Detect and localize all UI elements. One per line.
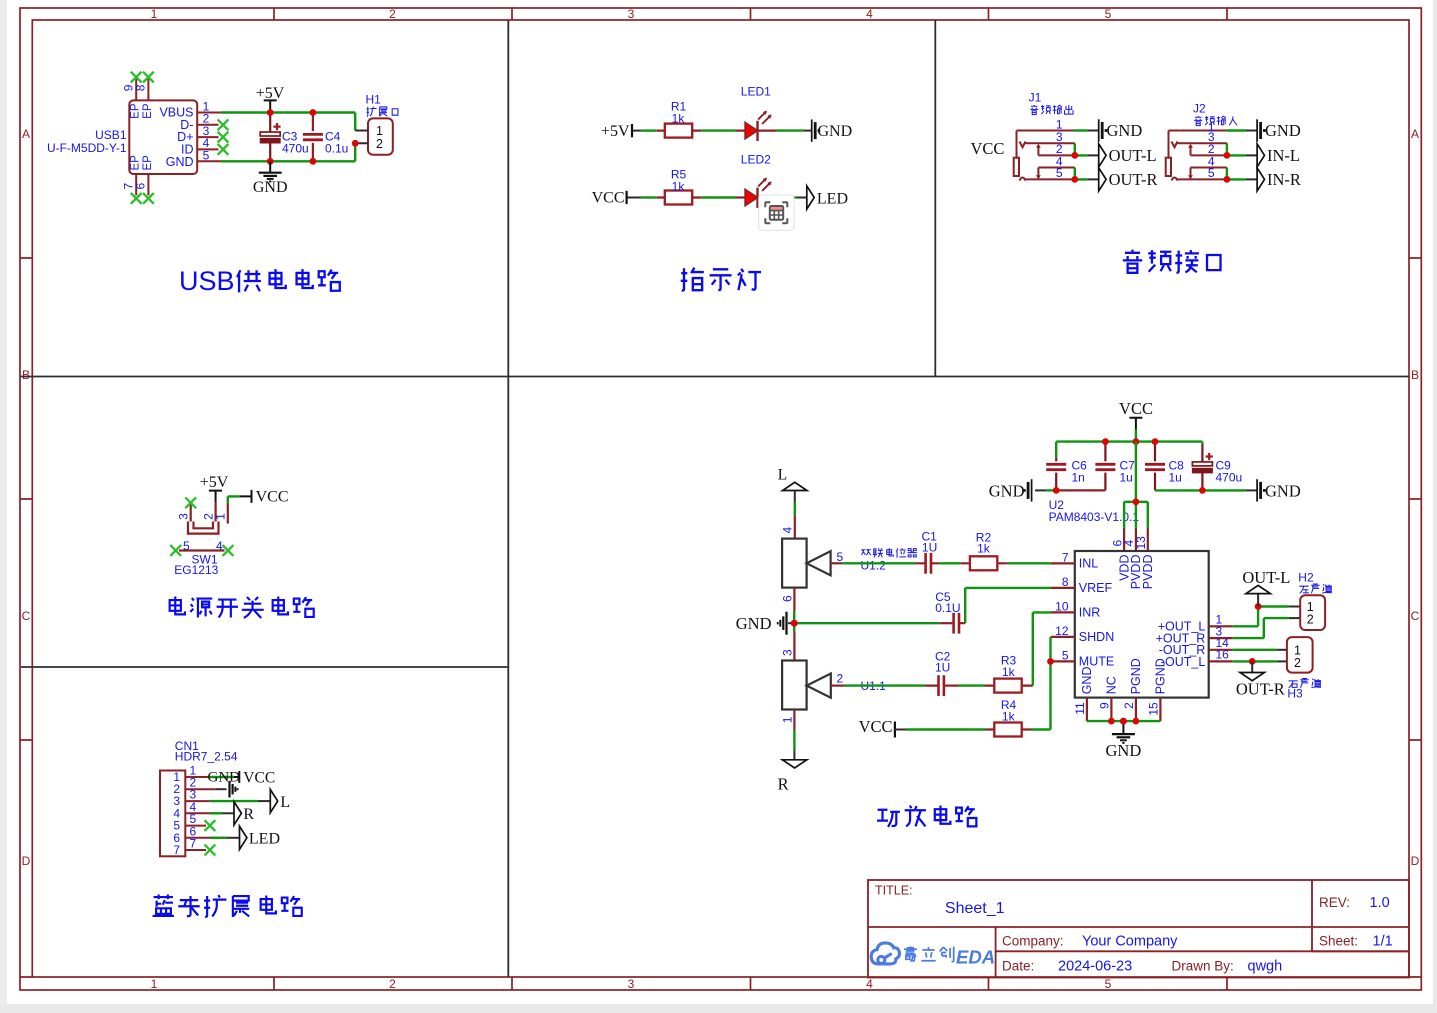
svg-text:GND: GND bbox=[208, 770, 241, 786]
svg-text:1k: 1k bbox=[672, 112, 686, 126]
svg-text:D: D bbox=[1411, 854, 1420, 868]
svg-text:2: 2 bbox=[1307, 613, 1314, 627]
wire wiper to C2 bbox=[844, 684, 925, 686]
svg-text:VCC: VCC bbox=[1119, 399, 1153, 418]
svg-text:OUT-L: OUT-L bbox=[1109, 146, 1157, 165]
wire pin2 to ground bbox=[216, 788, 227, 790]
svg-text:SHDN: SHDN bbox=[1079, 630, 1114, 644]
connector CN1 HDR7_2.54 bbox=[160, 771, 227, 857]
potentiometer U1.2 bbox=[782, 539, 807, 588]
wire VCC bus bbox=[1056, 430, 1202, 458]
junction dots bbox=[267, 109, 274, 116]
svg-text:J2: J2 bbox=[1193, 102, 1206, 116]
svg-text:H1: H1 bbox=[366, 93, 382, 107]
capacitor C4 0.1u bbox=[312, 113, 314, 162]
svg-text:5: 5 bbox=[1062, 648, 1069, 662]
svg-text:+5V: +5V bbox=[256, 85, 285, 102]
svg-text:7: 7 bbox=[190, 837, 197, 851]
svg-text:1u: 1u bbox=[1169, 471, 1182, 485]
svg-text:A: A bbox=[1411, 127, 1419, 141]
wire pin1 to VCC bbox=[210, 776, 234, 778]
svg-text:GND: GND bbox=[818, 123, 853, 140]
svg-text:HDR7_2.54: HDR7_2.54 bbox=[175, 750, 238, 764]
svg-text:GND: GND bbox=[253, 179, 288, 196]
svg-text:1.0: 1.0 bbox=[1370, 895, 1390, 911]
junction dot PGND node bbox=[1120, 718, 1127, 725]
wire C2 to R3 bbox=[958, 684, 985, 686]
svg-text:VCC: VCC bbox=[243, 769, 275, 786]
ground rail left: GND flag bbox=[1023, 479, 1032, 501]
svg-text:R: R bbox=[778, 775, 789, 794]
net flag IN-R bbox=[1257, 168, 1264, 191]
capacitor C7 1u bbox=[1104, 442, 1106, 491]
section title 电源开关电路 bbox=[170, 597, 314, 618]
canvas edge strips bbox=[0, 0, 7, 1013]
svg-text:1: 1 bbox=[151, 977, 158, 991]
svg-text:2: 2 bbox=[376, 137, 383, 151]
svg-text:5: 5 bbox=[1105, 7, 1112, 21]
svg-text:1: 1 bbox=[151, 7, 158, 21]
svg-text:EG1213: EG1213 bbox=[174, 563, 218, 577]
svg-text:L: L bbox=[280, 794, 290, 811]
svg-text:LED2: LED2 bbox=[741, 153, 771, 167]
svg-text:Sheet_1: Sheet_1 bbox=[945, 900, 1005, 917]
junction dot GND node bbox=[791, 620, 798, 627]
wire VREF to C5 bbox=[965, 588, 1050, 623]
wire to LED netflag bbox=[794, 196, 797, 198]
svg-text:GND: GND bbox=[1106, 741, 1142, 760]
chip pin names bbox=[1079, 557, 1114, 669]
svg-text:12: 12 bbox=[1055, 624, 1069, 638]
logo JLCEDA bbox=[871, 943, 899, 964]
capacitor C6 1n bbox=[1055, 458, 1057, 490]
LED2 row wires bbox=[627, 197, 641, 199]
svg-text:OUT-L: OUT-L bbox=[1242, 568, 1290, 587]
svg-text:6: 6 bbox=[134, 183, 148, 190]
svg-text:1: 1 bbox=[214, 513, 228, 520]
svg-text:2: 2 bbox=[389, 7, 396, 21]
no-connect X pin5 bbox=[205, 820, 216, 831]
svg-text:Sheet:: Sheet: bbox=[1319, 934, 1358, 949]
svg-text:TITLE:: TITLE: bbox=[875, 884, 913, 898]
svg-text:LED: LED bbox=[249, 830, 280, 847]
svg-text:VCC: VCC bbox=[859, 717, 893, 736]
svg-text:PVDD: PVDD bbox=[1141, 555, 1155, 590]
wire SHDN/MUTE to R4 bbox=[1049, 637, 1051, 730]
pin number labels bbox=[177, 513, 228, 553]
resistor R3 1k bbox=[985, 684, 1033, 686]
output wires -OUT_L to H3 pin2 bbox=[1232, 660, 1277, 662]
svg-text:GND: GND bbox=[1265, 121, 1301, 140]
svg-text:NC: NC bbox=[1105, 676, 1119, 694]
svg-text:3: 3 bbox=[780, 649, 794, 656]
svg-text:J1: J1 bbox=[1029, 91, 1042, 105]
svg-text:1k: 1k bbox=[672, 180, 686, 194]
connector USB1 U-F-M5DD-Y-1 bbox=[129, 77, 221, 195]
connector H1 expansion port bbox=[368, 118, 393, 154]
svg-text:470u: 470u bbox=[282, 142, 309, 156]
pot U1.1 pin1 to R flag bbox=[793, 710, 795, 731]
UI overlay widget bbox=[759, 195, 794, 230]
svg-text:U1.2: U1.2 bbox=[861, 559, 887, 573]
wire wiper to C1 bbox=[842, 562, 915, 564]
net flag LED bbox=[807, 186, 814, 209]
svg-text:EP: EP bbox=[130, 103, 142, 119]
ground rail right bbox=[1155, 489, 1246, 491]
svg-text:GND: GND bbox=[1265, 481, 1301, 500]
wire pin4 to R bbox=[210, 812, 223, 814]
resistor R1 1k bbox=[665, 124, 692, 138]
svg-text:GND: GND bbox=[989, 481, 1025, 500]
svg-text:EP: EP bbox=[130, 155, 142, 171]
LED1 row wires bbox=[633, 130, 642, 132]
output wires OUT_R path to H2 pin2 bbox=[1232, 618, 1288, 638]
svg-text:4: 4 bbox=[780, 527, 794, 534]
ground flag GND (J1) bbox=[1099, 119, 1108, 141]
wire R2 to INL bbox=[1008, 562, 1051, 564]
svg-text:1k: 1k bbox=[1002, 665, 1016, 679]
svg-text:H2: H2 bbox=[1298, 571, 1314, 585]
net flag OUT-L bbox=[1099, 144, 1106, 167]
capacitor C2 1U bbox=[926, 684, 946, 686]
svg-text:2024-06-23: 2024-06-23 bbox=[1058, 959, 1132, 975]
net flag IN-L bbox=[1257, 144, 1264, 167]
capacitor C1 1U bbox=[915, 562, 939, 564]
svg-text:10: 10 bbox=[1055, 599, 1069, 613]
connector J1 audio out jack bbox=[1014, 131, 1075, 181]
wire pin3 to L bbox=[210, 800, 258, 802]
svg-text:USB1: USB1 bbox=[95, 128, 127, 142]
svg-text:REV:: REV: bbox=[1319, 895, 1350, 910]
right pin stubs bbox=[1209, 626, 1233, 661]
section title 指示灯 bbox=[681, 268, 761, 291]
junction dots VCC bus bbox=[1102, 438, 1109, 445]
svg-text:1U: 1U bbox=[922, 541, 937, 555]
svg-text:PAM8403-V1.0.1: PAM8403-V1.0.1 bbox=[1049, 510, 1140, 524]
svg-text:EP: EP bbox=[142, 155, 154, 171]
svg-text:1U: 1U bbox=[935, 661, 950, 675]
connector H3 right channel bbox=[1287, 637, 1313, 673]
svg-text:2: 2 bbox=[1294, 656, 1301, 670]
svg-text:INR: INR bbox=[1079, 606, 1101, 620]
wire GND to C5 bbox=[794, 622, 939, 624]
svg-text:4: 4 bbox=[866, 7, 873, 21]
svg-text:EP: EP bbox=[142, 103, 154, 119]
pot U1.2 pin6 to junction bbox=[793, 588, 795, 611]
ground flag GND (J2) bbox=[1257, 119, 1266, 141]
no-connect X marks bbox=[185, 497, 196, 508]
svg-text:1u: 1u bbox=[1120, 471, 1133, 485]
svg-text:2: 2 bbox=[837, 672, 844, 686]
svg-text:1: 1 bbox=[780, 716, 794, 723]
svg-text:8: 8 bbox=[134, 84, 148, 91]
resistor R4 1k bbox=[986, 728, 1032, 730]
svg-text:C: C bbox=[22, 609, 31, 623]
svg-text:C: C bbox=[1411, 609, 1420, 623]
svg-text:1: 1 bbox=[376, 124, 383, 138]
svg-text:+5V: +5V bbox=[601, 123, 630, 140]
ground (left, pointing left) bbox=[788, 622, 794, 624]
potentiometer U1.1 bbox=[782, 661, 807, 710]
svg-text:qwgh: qwgh bbox=[1248, 959, 1283, 975]
bottom pin stubs bbox=[1087, 698, 1161, 722]
svg-text:3: 3 bbox=[628, 7, 635, 21]
svg-text:1/1: 1/1 bbox=[1373, 934, 1393, 950]
svg-text:5: 5 bbox=[1208, 166, 1215, 180]
chip pin numbers bbox=[1055, 550, 1069, 662]
wire VBUS +5V net bbox=[221, 113, 355, 131]
svg-text:VCC: VCC bbox=[971, 139, 1005, 158]
svg-text:7: 7 bbox=[1062, 550, 1069, 564]
svg-text:EDA: EDA bbox=[956, 947, 995, 968]
svg-text:2: 2 bbox=[389, 977, 396, 991]
capacitor C3 470u bbox=[269, 113, 271, 162]
resistor R5 1k bbox=[665, 191, 692, 205]
svg-text:LED: LED bbox=[817, 191, 848, 208]
svg-text:IN-R: IN-R bbox=[1267, 170, 1301, 189]
svg-text:R: R bbox=[243, 806, 254, 823]
svg-text:VCC: VCC bbox=[592, 190, 625, 207]
power flag +5V bbox=[264, 100, 277, 112]
svg-text:GND: GND bbox=[1107, 121, 1143, 140]
svg-text:B: B bbox=[22, 368, 30, 382]
connector H2 left channel bbox=[1300, 595, 1325, 630]
LED LED1 bbox=[745, 111, 772, 141]
svg-text:16: 16 bbox=[1216, 648, 1230, 662]
svg-text:2: 2 bbox=[1122, 702, 1136, 709]
section title 音频接口 bbox=[1123, 250, 1221, 273]
left pin stubs bbox=[1051, 563, 1075, 661]
svg-text:9: 9 bbox=[1098, 702, 1112, 709]
svg-text:8: 8 bbox=[1062, 575, 1069, 589]
svg-text:USB: USB bbox=[179, 266, 235, 296]
ground GND bbox=[269, 161, 271, 172]
capacitor C5 0.1U bbox=[952, 622, 965, 624]
svg-text:13: 13 bbox=[1134, 536, 1148, 550]
wire pin6 to LED bbox=[210, 837, 228, 839]
svg-text:IN-L: IN-L bbox=[1267, 146, 1300, 165]
switch SW1 EG1213 bbox=[179, 503, 228, 551]
svg-text:VCC: VCC bbox=[256, 489, 289, 506]
svg-text:OUT-R: OUT-R bbox=[1236, 680, 1285, 699]
svg-text:H3: H3 bbox=[1287, 687, 1303, 701]
capacitor C8 1u bbox=[1154, 442, 1156, 491]
svg-text:1k: 1k bbox=[977, 542, 991, 556]
svg-text:5: 5 bbox=[837, 550, 844, 564]
chip U2 box bbox=[1075, 551, 1209, 698]
svg-text:5: 5 bbox=[203, 149, 210, 163]
svg-text:4: 4 bbox=[866, 977, 873, 991]
no-connect X pin7 bbox=[205, 845, 216, 856]
svg-text:15: 15 bbox=[1147, 702, 1161, 716]
svg-text:+5V: +5V bbox=[200, 474, 229, 491]
wires VDD/PVDD bbox=[1124, 442, 1148, 528]
svg-text:5: 5 bbox=[183, 539, 190, 553]
svg-text:7: 7 bbox=[173, 843, 180, 857]
output wires -OUT_R to H3 pin1 bbox=[1232, 649, 1277, 651]
svg-text:PGND: PGND bbox=[1154, 658, 1168, 694]
section title 功放电路 bbox=[877, 806, 976, 827]
svg-text:Date:: Date: bbox=[1002, 959, 1034, 974]
svg-text:4: 4 bbox=[216, 539, 223, 553]
svg-text:0.1U: 0.1U bbox=[935, 601, 960, 615]
svg-text:PGND: PGND bbox=[1129, 658, 1143, 694]
wire VCC bbox=[228, 496, 240, 502]
svg-text:1n: 1n bbox=[1072, 471, 1085, 485]
svg-text:470u: 470u bbox=[1216, 471, 1243, 485]
section title 蓝牙扩展电路 bbox=[153, 895, 302, 917]
wire R3 up to INR bbox=[1033, 612, 1051, 685]
svg-text:3: 3 bbox=[177, 513, 191, 520]
svg-text:5: 5 bbox=[1105, 977, 1112, 991]
svg-text:6: 6 bbox=[780, 595, 794, 602]
capacitor C9 470u polarized bbox=[1201, 445, 1203, 491]
output wires OUT_L bbox=[1232, 607, 1288, 627]
svg-text:B: B bbox=[1411, 368, 1419, 382]
svg-text:11: 11 bbox=[1073, 702, 1087, 715]
bottom ground rail bbox=[1087, 720, 1161, 722]
no-connect X marks bbox=[131, 72, 142, 83]
svg-text:Your Company: Your Company bbox=[1082, 934, 1178, 950]
svg-text:VREF: VREF bbox=[1079, 581, 1113, 595]
net flag OUT-R bbox=[1099, 168, 1106, 191]
svg-text:D: D bbox=[22, 854, 31, 868]
svg-text:L: L bbox=[778, 467, 787, 484]
svg-text:LED1: LED1 bbox=[741, 85, 771, 99]
svg-text:OUT-R: OUT-R bbox=[1109, 170, 1158, 189]
connector J2 audio in jack bbox=[1166, 131, 1227, 181]
svg-text:GND: GND bbox=[1080, 667, 1094, 695]
svg-text:Drawn By:: Drawn By: bbox=[1172, 959, 1234, 974]
svg-text:3: 3 bbox=[628, 977, 635, 991]
resistor R2 1k bbox=[960, 562, 1008, 564]
wire GND net bbox=[221, 143, 355, 161]
svg-text:5: 5 bbox=[1056, 166, 1063, 180]
ground flag GND bbox=[812, 119, 821, 141]
svg-text:1k: 1k bbox=[1002, 710, 1016, 724]
svg-text:GND: GND bbox=[736, 614, 772, 633]
svg-text:GND: GND bbox=[166, 155, 194, 169]
svg-text:Company:: Company: bbox=[1002, 934, 1064, 949]
svg-text:A: A bbox=[22, 127, 30, 141]
svg-text:0.1u: 0.1u bbox=[325, 142, 348, 156]
LED LED2 bbox=[745, 178, 772, 208]
svg-text:INL: INL bbox=[1079, 557, 1099, 571]
wire C1 to R2 bbox=[939, 562, 960, 564]
svg-text:U-F-M5DD-Y-1: U-F-M5DD-Y-1 bbox=[47, 141, 127, 155]
